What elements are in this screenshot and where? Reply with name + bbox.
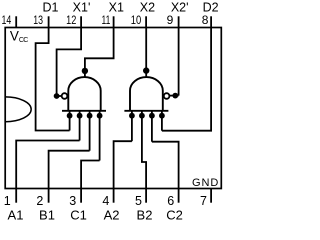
pin 9 stub — [178, 16, 180, 27]
IC body outline — [5, 28, 221, 189]
svg-text:X2: X2 — [140, 1, 155, 15]
svg-text:13: 13 — [33, 13, 43, 27]
junction dot gate1 output — [82, 68, 88, 74]
junction dot X1' corner — [54, 93, 60, 99]
pin 6 stub — [178, 189, 180, 203]
wire D1: pin 13 down, left, down to gate1 input 1 — [36, 28, 70, 131]
gate1 input 3 drop — [89, 111, 91, 151]
wire C2: pin 6 up, left to gate2 input 3 — [152, 142, 179, 189]
pin 10 stub — [145, 16, 147, 27]
svg-text:10: 10 — [131, 13, 142, 27]
pin 1 stub — [15, 189, 17, 203]
wire C1: pin 3 up, right to gate1 input 4 — [81, 161, 100, 189]
pin 12 stub — [80, 16, 82, 27]
pin 3 stub — [80, 189, 82, 203]
gate U1 base bar — [62, 110, 106, 112]
expander gate U2 body — [130, 77, 163, 111]
gate2 input 1 drop — [131, 111, 133, 141]
svg-text:B2: B2 — [137, 207, 153, 222]
junction dot X2' — [172, 93, 178, 99]
wire X1' dot to bubble — [57, 95, 62, 97]
wire X2': pin 9 straight down to inverting-input dot — [178, 28, 180, 96]
svg-text:4: 4 — [102, 194, 109, 208]
pin 7 stub — [210, 189, 212, 203]
svg-text:GND: GND — [192, 177, 219, 189]
svg-text:9: 9 — [167, 13, 174, 27]
wire D2: pin 8 down, left to gate2 input 4 — [162, 28, 211, 131]
gate1 input 1 drop — [69, 111, 71, 131]
svg-text:X2': X2' — [171, 1, 189, 15]
wire X1: pin 11 down, left to gate1 output — [85, 28, 114, 78]
gate U1 inverting bubble — [62, 93, 68, 99]
gate U2 inverting bubble — [164, 93, 170, 99]
svg-text:12: 12 — [66, 13, 76, 27]
wire A1: pin 1 up, right to gate1 input 2 — [16, 141, 79, 189]
wire X2' dot to bubble — [170, 95, 179, 97]
junction dot gate2 output — [143, 67, 149, 73]
svg-text:C1: C1 — [70, 207, 87, 222]
wire B1: pin 2 up, right to gate1 input 3 — [49, 151, 90, 189]
wire A2: pin 4 up, right to gate2 input 1 — [114, 141, 132, 188]
svg-text:B1: B1 — [39, 207, 55, 222]
pin 4 stub — [113, 189, 115, 203]
expander gate U1 body — [68, 77, 100, 111]
junction dot gate1 input C — [87, 113, 93, 119]
pin 8 stub — [210, 16, 212, 27]
pin 13 stub — [48, 16, 50, 27]
junction dot gate2 input D — [159, 113, 165, 119]
junction dot gate1 input A — [67, 113, 73, 119]
gate2 input 3 drop — [151, 111, 153, 142]
svg-text:C2: C2 — [166, 207, 183, 222]
gate1 input 4 drop — [99, 111, 101, 161]
svg-text:8: 8 — [202, 13, 209, 27]
pin 14 stub — [15, 16, 17, 27]
junction dot gate2 input A — [129, 113, 135, 119]
junction dot gate1 input B — [77, 113, 83, 119]
gate2 input 4 drop — [161, 111, 163, 131]
svg-text:1: 1 — [4, 194, 11, 208]
gate2 input 2 drop — [141, 111, 143, 114]
svg-text:5: 5 — [135, 194, 142, 208]
svg-text:2: 2 — [36, 194, 43, 208]
junction dot gate2 input C — [149, 113, 155, 119]
wire X2: pin 10 straight down to gate2 output — [145, 28, 147, 78]
pin 2 stub — [48, 189, 50, 203]
svg-text:A2: A2 — [104, 207, 120, 222]
pin 11 stub — [113, 16, 115, 27]
svg-text:X1: X1 — [109, 1, 124, 15]
svg-text:3: 3 — [69, 194, 76, 208]
svg-text:6: 6 — [167, 194, 174, 208]
notch (pin-1 index) on left edge — [5, 97, 31, 122]
svg-text:7: 7 — [200, 194, 207, 208]
svg-text:D1: D1 — [43, 1, 59, 15]
gate U2 base bar — [124, 110, 168, 112]
gate1 input 2 drop — [79, 111, 81, 141]
junction dot gate1 input D — [97, 113, 103, 119]
svg-text:11: 11 — [102, 13, 111, 27]
wire X1': pin 12 down, left, down to inverting-input dot — [57, 28, 82, 97]
pin 5 stub — [145, 189, 147, 203]
junction dot gate2 input B — [139, 113, 145, 119]
wire B2: pin 5 up with jog to gate2 input 2 — [142, 114, 146, 189]
svg-text:14: 14 — [2, 13, 12, 27]
svg-text:A1: A1 — [8, 207, 24, 222]
